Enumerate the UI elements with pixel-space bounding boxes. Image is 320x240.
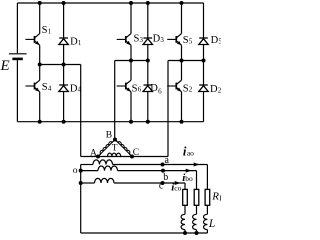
svg-text:6: 6 [158,88,162,96]
svg-text:2: 2 [189,86,193,94]
svg-text:4: 4 [78,86,82,94]
svg-text:L: L [219,193,221,202]
svg-text:4: 4 [48,84,52,92]
svg-text:3: 3 [160,36,164,44]
svg-text:co: co [174,184,181,193]
svg-text:L: L [208,218,215,230]
svg-text:1: 1 [48,28,52,36]
svg-text:1: 1 [78,39,82,47]
svg-text:T: T [112,143,118,153]
svg-text:a: a [165,155,170,166]
svg-text:6: 6 [138,86,142,94]
svg-text:ao: ao [187,149,194,158]
svg-text:5: 5 [218,37,221,45]
svg-text:R: R [211,191,219,203]
svg-text:b: b [163,172,168,183]
svg-text:3: 3 [140,36,144,44]
svg-text:C: C [133,148,139,158]
svg-text:5: 5 [189,37,193,45]
svg-text:B: B [106,130,112,140]
svg-text:bo: bo [185,174,193,183]
svg-text:E: E [0,58,10,74]
svg-text:o: o [73,166,78,176]
svg-text:2: 2 [218,86,221,94]
svg-text:c: c [159,181,164,192]
svg-text:A: A [90,148,97,158]
